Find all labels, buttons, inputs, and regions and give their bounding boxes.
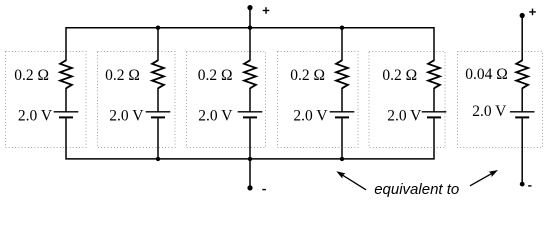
svg-text:0.2 Ω: 0.2 Ω [198, 67, 233, 84]
svg-text:0.2 Ω: 0.2 Ω [105, 67, 140, 84]
svg-text:2.0 V: 2.0 V [18, 107, 53, 124]
svg-text:equivalent to: equivalent to [374, 181, 459, 198]
svg-text:2.0 V: 2.0 V [293, 107, 328, 124]
svg-text:0.04 Ω: 0.04 Ω [465, 66, 508, 83]
svg-text:2.0 V: 2.0 V [109, 107, 144, 124]
svg-text:2.0 V: 2.0 V [472, 103, 507, 120]
svg-text:2.0 V: 2.0 V [198, 107, 233, 124]
svg-text:0.2 Ω: 0.2 Ω [382, 67, 417, 84]
svg-text:2.0 V: 2.0 V [387, 107, 422, 124]
svg-text:0.2 Ω: 0.2 Ω [290, 67, 325, 84]
svg-text:0.2 Ω: 0.2 Ω [14, 67, 49, 84]
